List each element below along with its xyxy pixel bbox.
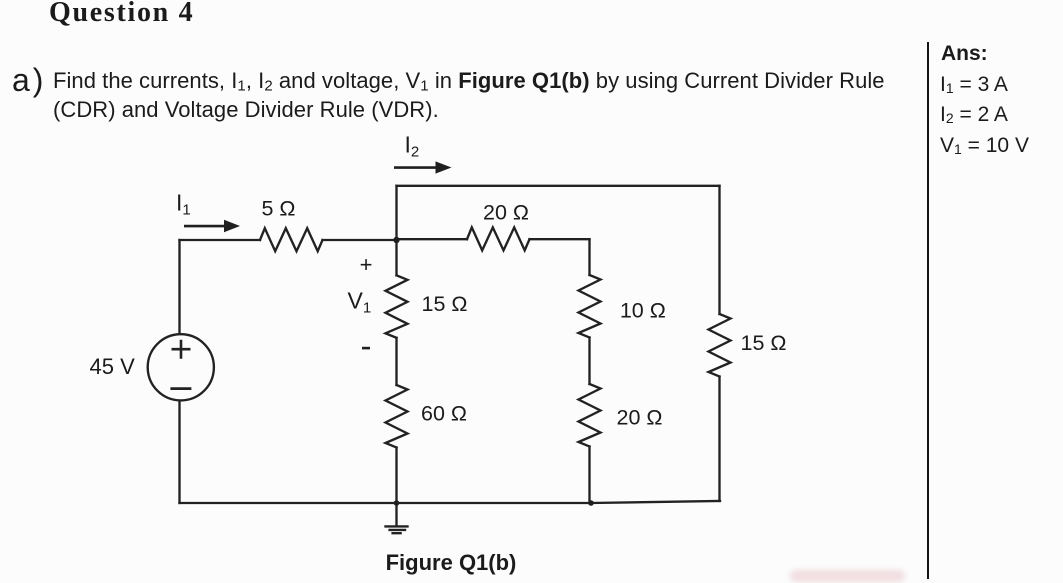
wire: right branch lower <box>718 377 720 502</box>
answer column separator line <box>927 42 929 579</box>
wire: top rail <box>397 185 720 187</box>
resistor R 5ohm <box>260 228 323 251</box>
wire: left vertical below source <box>178 402 180 504</box>
ground stem <box>395 503 397 526</box>
resistor R 10ohm <box>579 275 601 338</box>
wire: middle branch between resistors <box>588 338 590 385</box>
wire: right branch upper <box>718 186 720 314</box>
svg-text:+: + <box>360 252 373 277</box>
svg-text:I2: I2 <box>405 132 420 161</box>
wire: second tier horizontal (node to middle branch) <box>397 238 590 240</box>
faint pink scan smudge bottom <box>790 570 905 582</box>
svg-text:60 Ω: 60 Ω <box>421 401 467 425</box>
svg-text:10 Ω: 10 Ω <box>620 299 666 323</box>
svg-text:15 Ω: 15 Ω <box>741 331 787 355</box>
junction dot bottom middle <box>588 500 594 506</box>
svg-text:V1: V1 <box>348 287 372 316</box>
wire: middle branch top <box>588 239 590 275</box>
arrow I1 <box>184 225 226 228</box>
wire: left vertical above source <box>178 240 180 333</box>
wire: top-left horizontal (source to node) <box>180 239 397 241</box>
answer block <box>941 42 988 66</box>
voltage source plus sign <box>173 341 189 357</box>
svg-text:5 Ω: 5 Ω <box>261 197 295 221</box>
voltage source minus sign <box>172 387 190 390</box>
svg-text:20 Ω: 20 Ω <box>483 200 529 224</box>
heading "Question 4" <box>49 0 194 29</box>
wire: bottom rail <box>180 501 721 503</box>
voltage source V 45V circle <box>148 334 214 400</box>
svg-text:I1: I1 <box>176 190 191 219</box>
svg-text:45 V: 45 V <box>90 354 136 379</box>
junction dot bottom left (ground node) <box>394 500 400 506</box>
resistor R 20ohm bottom <box>579 384 601 447</box>
resistor R 20ohm top <box>467 227 530 250</box>
arrow I2 <box>394 166 437 169</box>
resistor R 60ohm <box>386 385 408 448</box>
item label a) <box>12 62 46 99</box>
label minus V1 <box>362 347 370 350</box>
wire: middle branch down to bottom rail <box>588 447 590 504</box>
wire: between 15ohm and 60ohm <box>395 338 397 385</box>
node A junction dot <box>393 237 399 243</box>
svg-text:20 Ω: 20 Ω <box>617 406 663 430</box>
svg-text:Figure Q1(b): Figure Q1(b) <box>386 550 517 575</box>
svg-text:15 Ω: 15 Ω <box>422 292 468 316</box>
wire: node up to top rail <box>395 186 397 240</box>
wire: 60ohm down to bottom rail <box>395 448 397 504</box>
resistor R 15ohm V1 <box>386 275 408 338</box>
ground bars <box>386 526 408 533</box>
resistor R 15ohm right <box>709 314 731 377</box>
question paragraph <box>53 66 933 125</box>
wire: node down to V1 resistor <box>395 240 397 275</box>
